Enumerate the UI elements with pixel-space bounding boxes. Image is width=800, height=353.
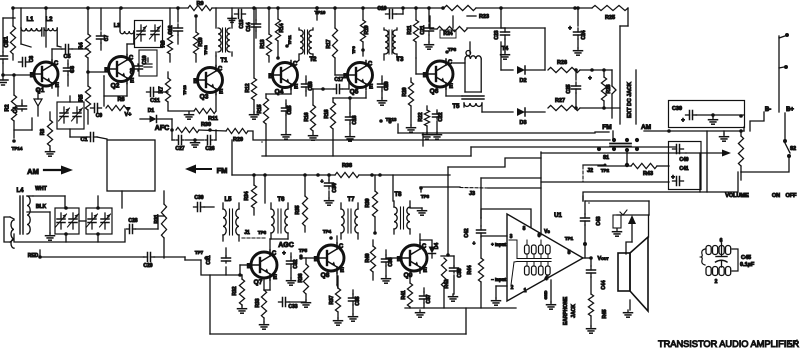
svg-text:R19: R19 — [364, 25, 370, 34]
svg-text:R16: R16 — [304, 112, 310, 121]
svg-text:C10: C10 — [142, 55, 148, 64]
svg-text:R34: R34 — [244, 191, 250, 200]
svg-text:C: C — [54, 61, 59, 67]
svg-text:C20: C20 — [384, 81, 390, 90]
svg-text:D4: D4 — [434, 243, 440, 250]
svg-text:C: C — [129, 56, 134, 62]
svg-text:TP6: TP6 — [258, 230, 267, 235]
svg-text:C13: C13 — [239, 19, 245, 28]
svg-text:R25: R25 — [605, 15, 615, 21]
svg-text:R22: R22 — [418, 112, 424, 121]
svg-text:4: 4 — [545, 276, 548, 282]
svg-text:TP14: TP14 — [12, 146, 23, 151]
svg-text:J1: J1 — [244, 230, 250, 236]
svg-text:C38: C38 — [457, 268, 463, 277]
svg-text:R13: R13 — [260, 39, 266, 48]
svg-text:B: B — [193, 79, 198, 85]
svg-text:S1: S1 — [603, 155, 609, 161]
svg-text:L4: L4 — [16, 188, 24, 194]
svg-text:OFF: OFF — [786, 193, 798, 199]
svg-text:C30: C30 — [194, 195, 203, 201]
svg-text:TP4: TP4 — [323, 229, 332, 234]
svg-text:WHT: WHT — [35, 186, 46, 192]
svg-text:C35: C35 — [355, 296, 361, 305]
svg-text:S2: S2 — [790, 146, 796, 152]
svg-text:D1: D1 — [148, 108, 155, 114]
svg-text:R29: R29 — [233, 137, 243, 143]
svg-text:C6: C6 — [70, 66, 76, 73]
svg-text:C27: C27 — [175, 146, 184, 152]
svg-text:L1: L1 — [26, 17, 34, 23]
svg-text:E: E — [219, 90, 223, 96]
svg-text:T5: T5 — [452, 104, 460, 110]
svg-text:AFC: AFC — [155, 125, 169, 132]
svg-text:C: C — [272, 251, 277, 257]
svg-text:R3: R3 — [161, 40, 167, 47]
svg-text:T1: T1 — [220, 58, 228, 64]
svg-text:TP9: TP9 — [351, 46, 356, 54]
svg-text:+: + — [321, 179, 324, 185]
svg-text:C4: C4 — [13, 107, 19, 114]
svg-text:ON: ON — [772, 193, 780, 199]
svg-text:+: + — [282, 251, 286, 257]
svg-text:TP12: TP12 — [203, 44, 208, 54]
svg-text:R3: R3 — [40, 129, 46, 136]
svg-text:FM: FM — [602, 124, 611, 131]
svg-text:Q8: Q8 — [321, 272, 330, 279]
svg-text:C39: C39 — [672, 106, 682, 112]
svg-text:R30: R30 — [201, 122, 211, 128]
svg-text:C26: C26 — [205, 146, 214, 152]
svg-text:TP2: TP2 — [601, 168, 610, 173]
svg-text:R4: R4 — [79, 42, 85, 50]
svg-text:TRANSISTOR AUDIO AMPLIFIER: TRANSISTOR AUDIO AMPLIFIER — [658, 339, 799, 349]
svg-text:R18: R18 — [324, 109, 330, 118]
svg-text:C9: C9 — [129, 68, 134, 74]
svg-text:R45: R45 — [602, 309, 608, 318]
svg-text:C25: C25 — [566, 84, 572, 93]
svg-text:TP8: TP8 — [448, 47, 457, 52]
svg-text:5: 5 — [568, 250, 571, 256]
svg-text:E: E — [130, 79, 134, 85]
svg-text:R12: R12 — [245, 83, 251, 92]
svg-text:R33: R33 — [255, 298, 261, 307]
svg-text:C31: C31 — [206, 255, 212, 264]
svg-text:EXT DC JACK: EXT DC JACK — [627, 82, 633, 118]
svg-text:C32: C32 — [293, 259, 299, 268]
svg-text:R9: R9 — [196, 1, 203, 7]
svg-text:C7: C7 — [104, 35, 110, 42]
svg-text:R23: R23 — [479, 14, 489, 20]
svg-text:C37: C37 — [426, 294, 432, 303]
svg-text:U1: U1 — [554, 213, 562, 219]
svg-text:R39: R39 — [365, 198, 371, 207]
svg-text:VS: VS — [544, 229, 550, 235]
svg-text:R36: R36 — [298, 273, 304, 282]
svg-text:C9: C9 — [96, 113, 103, 119]
svg-text:R35: R35 — [295, 205, 301, 214]
svg-text:TP11: TP11 — [287, 35, 292, 45]
svg-text:C5: C5 — [63, 54, 70, 60]
svg-text:TP3: TP3 — [421, 194, 430, 199]
svg-text:GND: GND — [543, 290, 548, 299]
svg-text:R1: R1 — [4, 36, 10, 43]
svg-text:+ Input: + Input — [491, 242, 506, 247]
svg-text:E: E — [449, 84, 453, 90]
svg-text:C45: C45 — [741, 255, 751, 261]
svg-text:+: + — [473, 241, 476, 247]
svg-text:C1: C1 — [80, 137, 87, 143]
svg-text:R20: R20 — [402, 87, 408, 96]
svg-text:C23: C23 — [494, 30, 500, 39]
svg-text:R26: R26 — [557, 60, 567, 66]
svg-text:B+: B+ — [786, 107, 794, 113]
svg-text:C42: C42 — [464, 228, 470, 237]
svg-text:R27: R27 — [555, 98, 565, 104]
svg-text:TP10: TP10 — [315, 10, 326, 15]
svg-text:JACK: JACK — [571, 304, 577, 318]
svg-text:6: 6 — [538, 233, 541, 239]
svg-text:T8: T8 — [394, 192, 402, 198]
svg-text:+: + — [568, 26, 572, 32]
svg-text:3: 3 — [510, 234, 513, 240]
svg-text:T6: T6 — [277, 197, 285, 203]
svg-text:Q3: Q3 — [200, 94, 209, 101]
svg-text:C: C — [422, 244, 427, 250]
svg-text:6: 6 — [720, 238, 723, 244]
svg-text:1: 1 — [524, 288, 527, 294]
svg-text:8: 8 — [523, 226, 526, 232]
svg-text:C11: C11 — [150, 98, 160, 104]
svg-text:R8: R8 — [117, 97, 124, 103]
svg-text:TP5: TP5 — [299, 248, 308, 253]
svg-text:R15: R15 — [257, 104, 263, 113]
svg-text:R32: R32 — [232, 286, 238, 295]
svg-text:C19: C19 — [377, 6, 386, 12]
svg-text:2: 2 — [715, 279, 718, 285]
svg-text:0.1µF: 0.1µF — [740, 262, 755, 268]
svg-text:R5: R5 — [79, 94, 85, 101]
svg-text:Q7: Q7 — [254, 279, 263, 286]
svg-text:VOUT: VOUT — [597, 256, 609, 262]
svg-text:C8: C8 — [29, 56, 35, 63]
svg-text:AM: AM — [27, 167, 39, 176]
svg-text:R37: R37 — [329, 295, 335, 304]
svg-text:R17: R17 — [326, 39, 332, 48]
svg-text:R44: R44 — [467, 265, 473, 274]
svg-text:R2: R2 — [5, 104, 11, 111]
svg-text:E: E — [423, 268, 427, 274]
svg-text:R14: R14 — [279, 23, 285, 32]
svg-text:C34: C34 — [332, 183, 338, 192]
svg-text:+: + — [588, 76, 592, 82]
svg-text:C15: C15 — [287, 105, 293, 114]
svg-text:J2: J2 — [587, 168, 593, 174]
svg-text:− Input: − Input — [491, 277, 506, 282]
svg-text:Q6: Q6 — [430, 88, 439, 95]
svg-text:Q1: Q1 — [36, 87, 45, 94]
svg-text:C33: C33 — [288, 304, 297, 310]
svg-text:+: + — [681, 118, 685, 124]
svg-text:Q2: Q2 — [111, 83, 120, 90]
svg-text:Q9: Q9 — [404, 272, 413, 279]
svg-text:T7: T7 — [347, 197, 355, 203]
svg-text:C21: C21 — [420, 25, 426, 34]
svg-text:R24: R24 — [443, 31, 452, 37]
svg-text:B: B — [30, 73, 35, 79]
svg-text:R38: R38 — [342, 163, 352, 169]
svg-text:BLK: BLK — [36, 204, 47, 210]
svg-text:C24: C24 — [581, 30, 587, 39]
svg-text:E: E — [340, 268, 344, 274]
svg-text:TP13: TP13 — [182, 84, 187, 94]
svg-text:C12: C12 — [168, 25, 174, 34]
svg-text:R41: R41 — [401, 290, 407, 299]
svg-text:C28: C28 — [128, 218, 137, 224]
svg-text:C: C — [368, 62, 373, 68]
svg-text:R43: R43 — [643, 171, 653, 177]
svg-text:RED: RED — [28, 253, 39, 259]
svg-text:C22: C22 — [438, 112, 444, 121]
svg-text:E: E — [273, 275, 277, 281]
svg-text:C18: C18 — [352, 115, 358, 124]
svg-text:C40: C40 — [679, 157, 688, 163]
svg-text:AGC: AGC — [278, 242, 294, 249]
svg-text:C: C — [448, 60, 453, 66]
svg-text:TP1: TP1 — [565, 236, 574, 241]
svg-text:FM: FM — [217, 166, 228, 175]
svg-text:C44: C44 — [601, 280, 607, 289]
svg-text:R40: R40 — [365, 253, 371, 262]
svg-text:C: C — [218, 67, 223, 73]
svg-text:B-: B- — [765, 107, 771, 113]
svg-text:D2: D2 — [519, 78, 526, 84]
svg-text:C29: C29 — [143, 263, 152, 269]
svg-text:R28: R28 — [606, 84, 612, 93]
svg-text:B: B — [104, 68, 109, 74]
svg-text:R10: R10 — [198, 37, 204, 46]
svg-text:AM: AM — [641, 124, 651, 131]
svg-text:+: + — [671, 175, 675, 181]
svg-text:EARPHONE: EARPHONE — [563, 296, 569, 325]
svg-text:L3: L3 — [114, 23, 120, 29]
svg-text:R21: R21 — [407, 25, 413, 34]
svg-text:V+: V+ — [125, 112, 132, 118]
svg-text:D3: D3 — [519, 120, 526, 126]
svg-text:E: E — [369, 85, 373, 91]
svg-text:Q5: Q5 — [350, 89, 359, 96]
svg-text:C43: C43 — [596, 216, 602, 225]
svg-text:VOLUME: VOLUME — [725, 193, 749, 199]
svg-text:C14: C14 — [246, 22, 252, 31]
svg-text:B: B — [268, 74, 273, 80]
svg-text:J3: J3 — [469, 191, 475, 197]
svg-text:C41: C41 — [679, 166, 688, 172]
svg-text:R42: R42 — [444, 279, 450, 288]
svg-text:R31: R31 — [154, 214, 160, 223]
svg-text:E: E — [294, 85, 298, 91]
svg-text:TP7: TP7 — [195, 250, 204, 255]
svg-text:L5: L5 — [224, 197, 232, 203]
svg-text:C: C — [339, 244, 344, 250]
svg-text:2: 2 — [511, 285, 514, 291]
